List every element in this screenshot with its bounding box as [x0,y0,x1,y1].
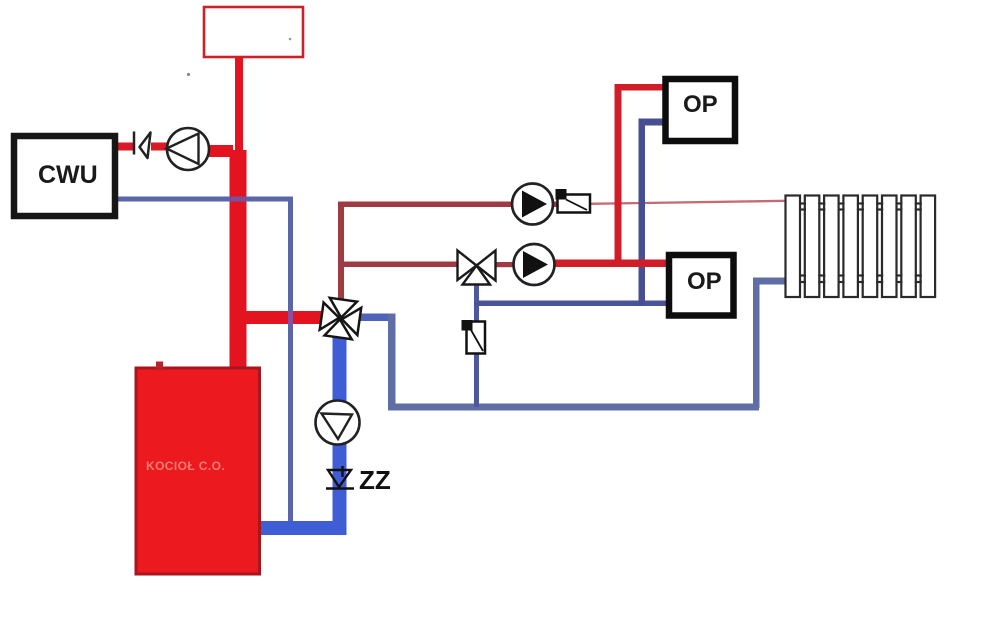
wire: red pipe pump to main vertical [208,145,233,157]
expansion vessel box (red outline, top) [204,7,303,57]
svg-text:CWU: CWU [38,161,98,189]
check valve (CWU line) [134,132,151,159]
node: purple overlap blue vertical over red branch [288,311,293,324]
CWU tank box [14,136,115,216]
wire: dark blue OP return manifold horizontal [474,301,666,307]
wire: dark red horizontal to pump P1 [338,202,557,208]
wire: thick blue bottom pipe to boiler [255,521,347,535]
speck artifact 2 [289,38,292,41]
svg-text:OP: OP [683,91,718,118]
wire: bright red OP supply horizontal pump P2 to OP2 [552,260,667,268]
pump CWU (open triangle left) [167,128,210,170]
sensor T1 (right of pump P1) [556,189,591,213]
wire: blue CWU return horizontal [118,197,293,202]
wire: thin pale red line from sensor to radiator [589,201,787,204]
wire: dark blue vertical below 3-way valve (through sensor) [474,285,479,407]
wire: red CWU supply pipe from CWU box to check valve [118,143,135,151]
wire: bright red horizontal stub into OP1 [615,84,664,91]
radiator [786,196,936,298]
wire: bright red vertical up to OP1 [615,86,622,264]
boiler KOCIOL C.O. [136,362,260,575]
svg-text:ZZ: ZZ [359,465,391,495]
valve ZZ symbol [326,466,354,489]
wire: main red vertical pipe (to boiler) [230,150,247,370]
wire: dark red segment 3-way valve to pump P2 [495,262,514,267]
wire: dark blue OP1 return vertical [639,119,646,306]
sensor T2 (below 3-way valve) [462,320,486,354]
box OP1 (upper receiver) [666,79,736,141]
3-way mixing valve [458,251,496,285]
speck artifact 1 [187,73,190,76]
wire: dark red horizontal branch to 3-way valve [341,262,458,268]
pump P2 (lower circuit, filled triangle right) [514,244,555,285]
wire: blue return vertical up to radiator [753,278,760,408]
wire: red pipe from top box down to CWU junction [235,58,243,153]
wire: blue pipe from 4-way valve right port [358,314,396,322]
wire: dark red vertical from elbow down to 4-way valve top [338,202,344,300]
4-way mixing valve [319,297,362,340]
wire: thick blue pipe 4-way valve down (with pump and ZZ valve) [333,330,347,535]
wire: red pipe check valve to pump [151,143,169,151]
node: purple overlap CWU blue over red main [230,197,247,202]
wire: blue return horizontal into radiator [753,278,786,285]
svg-text:OP: OP [687,268,722,295]
wire: dark blue OP1 return horizontal stub [639,119,664,126]
wire: long blue return horizontal [388,404,759,411]
pump P3 (boiler loop, open triangle down) [316,401,360,445]
radiator section connectors [799,204,922,283]
wire: blue CWU return vertical down to boiler return [288,197,293,527]
box OP2 (lower receiver) [669,255,734,316]
wire: thick red branch from main to 4-way valve [238,311,323,324]
svg-text:KOCIOŁ C.O.: KOCIOŁ C.O. [146,459,225,473]
wire: blue return vertical elbow down [388,314,396,411]
pump P1 (upper circuit, filled triangle right) [512,184,553,225]
